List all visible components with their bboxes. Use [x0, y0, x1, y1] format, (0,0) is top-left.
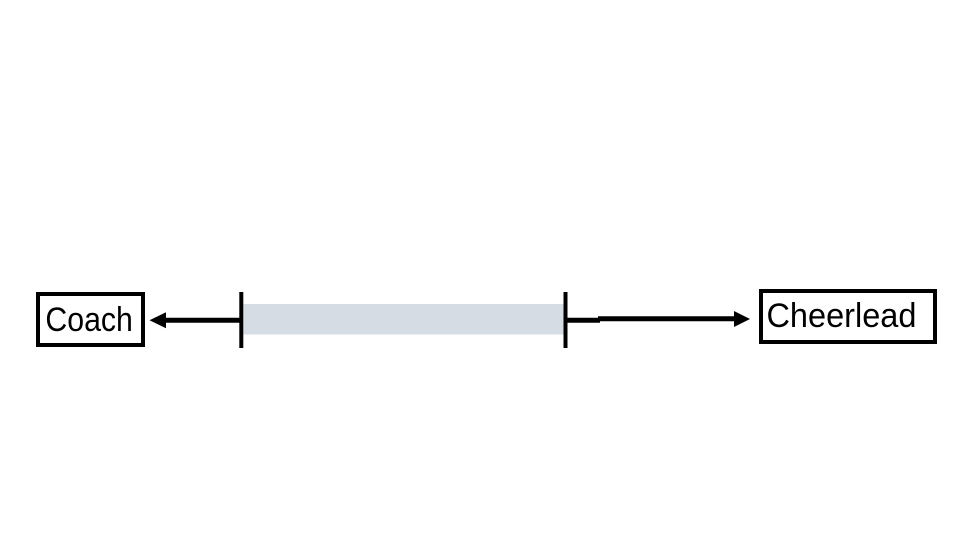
right cap line [564, 292, 568, 348]
right arrowhead [734, 311, 750, 327]
left cap line [239, 292, 243, 348]
left arrow shaft [164, 318, 241, 323]
right arrow shaft segment A [566, 318, 601, 323]
right arrow shaft segment B [598, 316, 736, 321]
node Cheerlead box [759, 289, 937, 344]
left arrowhead [150, 312, 167, 328]
node Coach box [36, 292, 145, 347]
gray duration bar [244, 304, 565, 335]
